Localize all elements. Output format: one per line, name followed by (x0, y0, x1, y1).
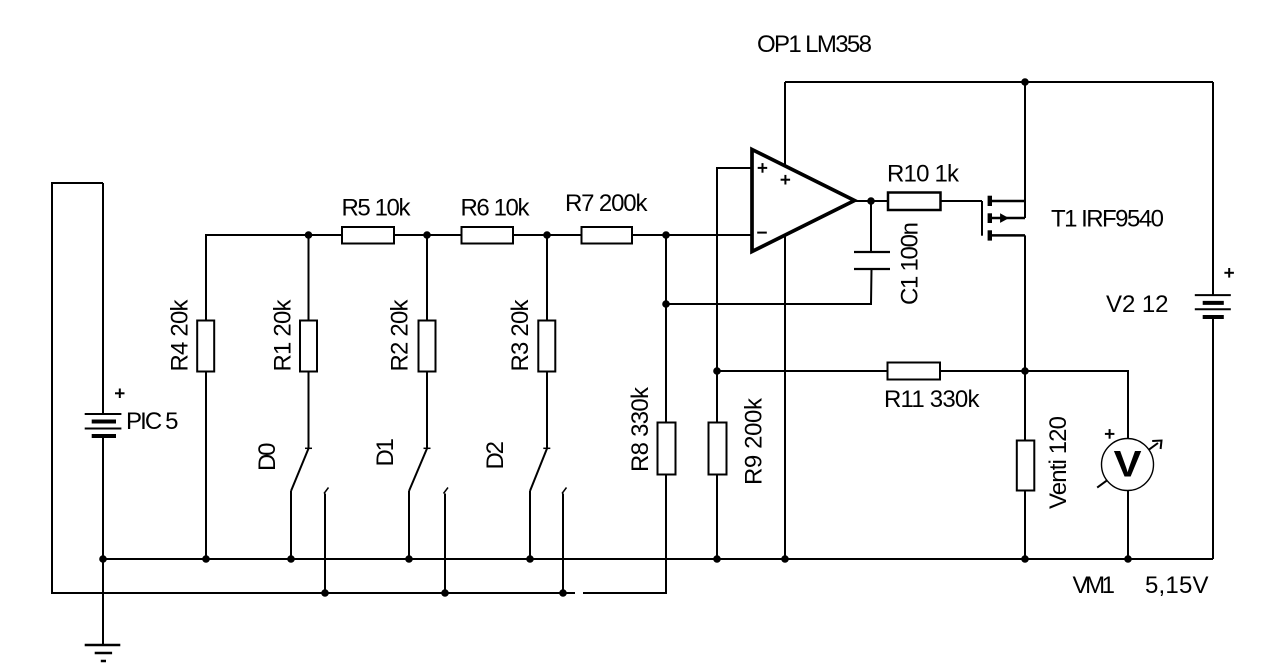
resistor R11 (888, 363, 941, 380)
wire signal rail R6 to R7 (513, 234, 582, 236)
wire op-amp V- pin (784, 235, 786, 559)
svg-text:D0: D0 (254, 443, 281, 472)
wire op-amp output (855, 200, 889, 202)
wire battery PIC5 top lead (102, 183, 104, 414)
wire MOSFET drain vertical (1024, 235, 1026, 371)
transistor T1 (982, 196, 1025, 241)
resistor R10 (888, 193, 941, 211)
wire main ground rail (103, 558, 1213, 560)
op-amp OP1 (752, 150, 855, 252)
wire R1 bottom lead (308, 372, 310, 449)
resistor R5 (342, 227, 394, 244)
voltmeter VM1 (1097, 429, 1161, 490)
switch D0 (291, 448, 329, 593)
node dots (99, 78, 1132, 597)
svg-text:R4 20k: R4 20k (167, 299, 194, 372)
wire R4 bottom lead (205, 372, 207, 560)
capacitor C1 (854, 252, 890, 269)
wire voltmeter bottom lead (1127, 491, 1129, 560)
svg-text:Venti 120: Venti 120 (1045, 416, 1072, 509)
wire R1 top lead (308, 235, 310, 321)
wire R2 bottom lead (426, 372, 428, 449)
wire signal rail R7 to op-amp minus input (632, 234, 752, 236)
svg-text:R6 10k: R6 10k (461, 195, 531, 222)
wire top rail (785, 81, 1213, 83)
svg-text:OP1 LM358: OP1 LM358 (757, 31, 872, 58)
wire second rail right segment (583, 475, 666, 594)
wire V2 bottom lead (1212, 318, 1214, 559)
svg-text:R1 20k: R1 20k (270, 299, 297, 372)
wire MOSFET source vertical (1024, 82, 1026, 218)
resistor R6 (462, 227, 514, 244)
svg-text:R2 20k: R2 20k (387, 299, 414, 372)
wire C1 top lead (870, 201, 872, 252)
wire R3 bottom lead (546, 372, 548, 449)
svg-text:V: V (1114, 444, 1143, 485)
wire V2 top lead (1212, 82, 1214, 295)
resistor R9 (709, 423, 727, 475)
svg-text:PIC 5: PIC 5 (126, 408, 179, 435)
wire R9 bottom lead (716, 475, 718, 560)
svg-text:5,15V: 5,15V (1145, 572, 1209, 599)
svg-text:VM1: VM1 (1073, 572, 1116, 599)
wire R11 row (717, 371, 1128, 439)
switch D2 (530, 448, 567, 593)
svg-text:C1 100n: C1 100n (897, 222, 924, 305)
wire R2 top lead (426, 235, 428, 321)
svg-text:D1: D1 (372, 438, 399, 467)
resistor Venti (1017, 441, 1035, 491)
svg-text:R3 20k: R3 20k (507, 299, 534, 372)
svg-text:V2 12: V2 12 (1106, 291, 1169, 318)
wire signal rail R5 to R6 (394, 234, 462, 236)
resistor R1 (300, 321, 317, 372)
wire C1 return (666, 270, 872, 305)
wire battery PIC5 bottom lead to ground (102, 438, 104, 644)
ground (85, 645, 121, 661)
svg-text:R11 330k: R11 330k (884, 386, 981, 413)
wire Venti bottom lead (1024, 491, 1026, 560)
svg-text:R10 1k: R10 1k (887, 160, 960, 187)
svg-text:R7 200k: R7 200k (565, 190, 649, 217)
battery V2 (1195, 268, 1234, 317)
wire outer loop left vertical (52, 183, 575, 593)
wire R10 right lead to gate (941, 200, 983, 202)
svg-text:D2: D2 (482, 441, 509, 470)
resistor R8 (658, 423, 676, 475)
svg-text:T1 IRF9540: T1 IRF9540 (1051, 206, 1164, 233)
wire op-amp V+ pin (784, 82, 786, 166)
svg-text:R5 10k: R5 10k (342, 195, 412, 222)
svg-text:R8 330k: R8 330k (627, 386, 654, 472)
wire R3 top lead (546, 235, 548, 321)
switch D1 (409, 448, 448, 593)
resistor R3 (538, 321, 555, 372)
resistor R2 (419, 321, 436, 372)
wire Venti top lead (1024, 371, 1026, 441)
resistor R7 (582, 227, 633, 244)
battery PIC5 (85, 389, 125, 437)
wire R8 top lead (665, 235, 667, 423)
resistor R4 (197, 321, 214, 372)
svg-text:R9 200k: R9 200k (741, 397, 768, 485)
wire R9 column plus-input (717, 168, 752, 423)
wire R4 top lead and signal rail start (206, 235, 342, 321)
